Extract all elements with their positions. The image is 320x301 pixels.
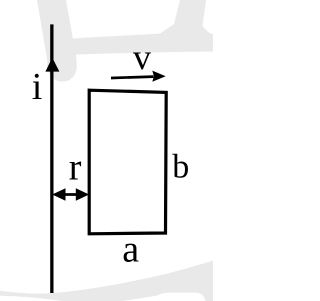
svg-text:v: v	[133, 37, 151, 77]
svg-text:i: i	[32, 66, 43, 108]
svg-text:r: r	[69, 147, 82, 189]
svg-text:a: a	[122, 228, 139, 270]
svg-text:b: b	[172, 149, 189, 186]
